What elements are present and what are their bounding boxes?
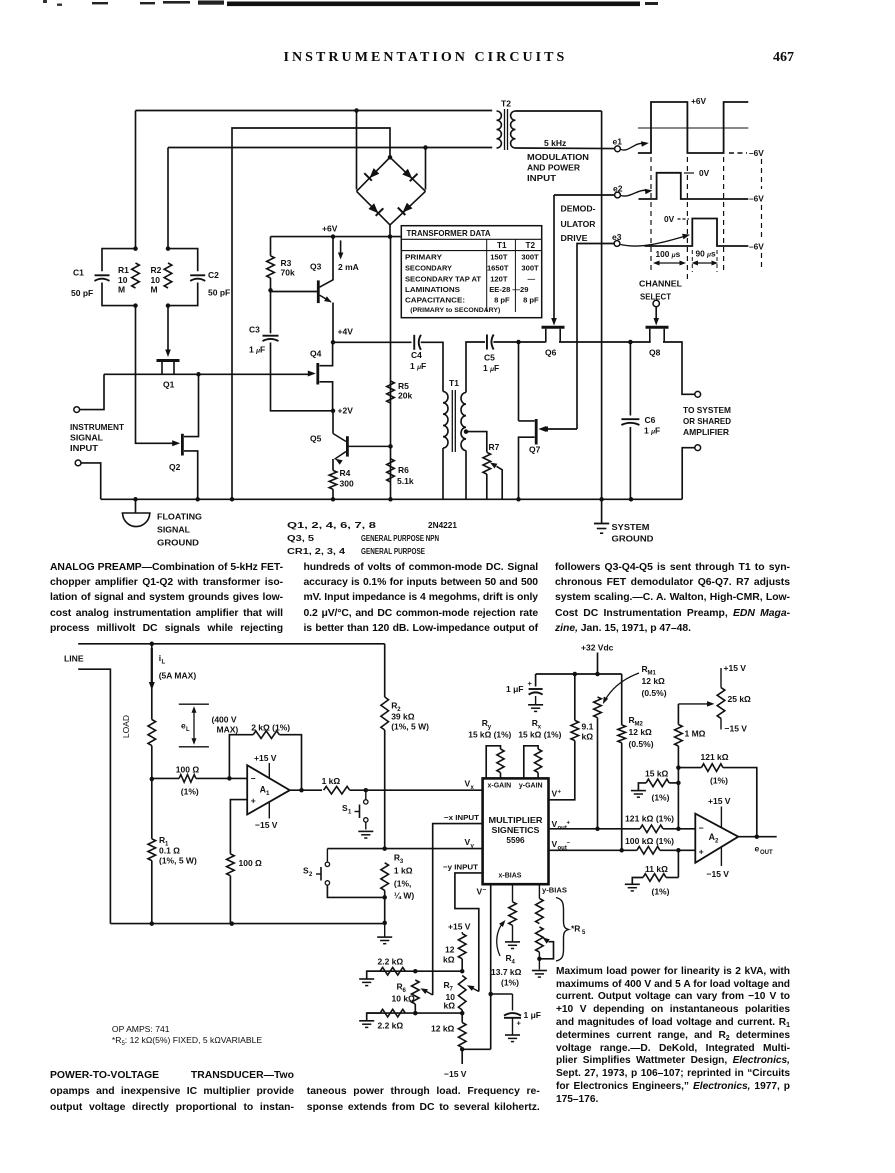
label transistor types [287,521,458,556]
svg-text:1 μF: 1 μF [483,363,499,373]
resistor R2 39k [381,644,429,849]
svg-text:(1%,: (1%, [394,879,411,889]
svg-text:CHANNEL: CHANNEL [639,279,682,289]
scan artifact top edge [43,0,658,6]
svg-text:−: − [699,823,704,833]
svg-text:(1%): (1%) [652,793,670,803]
svg-text:INSTRUMENT: INSTRUMENT [70,422,125,432]
svg-text:e2: e2 [613,184,623,194]
capacitor 1uF supply [506,674,543,711]
terminal e1 [615,146,621,152]
wire e2 feed [554,194,615,196]
svg-text:LINE: LINE [64,654,84,664]
svg-text:−15 V: −15 V [725,724,748,734]
svg-text:11 kΩ: 11 kΩ [645,864,668,874]
capacitor C4 [410,335,426,371]
resistor Rx 15k [518,718,561,778]
svg-text:y-BIAS: y-BIAS [542,886,567,895]
label Vx [465,779,475,792]
wire C5 to Q6 [493,341,545,343]
wire Q1 source-drain line [104,373,311,375]
node ground tap rail [382,921,387,926]
resistor R4 300 [329,459,354,499]
svg-text:+: + [528,679,533,688]
resistor 15k to ground [631,769,679,803]
resistor 9.1k [549,674,594,800]
svg-text:+15 V: +15 V [724,663,747,673]
node R6 bottom [413,1011,418,1016]
diode CR1 top-left [357,157,391,191]
svg-text:10: 10 [151,275,161,285]
terminal input 2 [75,460,101,499]
capacitor C1 [71,249,136,306]
svg-text:EE-28 —29: EE-28 —29 [489,285,528,294]
node Q5 base / R5-R6 [388,444,393,449]
wire primary bottom y=147.5 [168,147,492,149]
svg-text:+: + [251,796,256,806]
svg-text:SIGNAL: SIGNAL [70,433,103,443]
svg-text:R7: R7 [489,442,500,452]
svg-text:4: 4 [512,960,516,966]
svg-text:Q3, 5: Q3, 5 [287,534,315,543]
terminal e3 [614,241,620,247]
waveform e2 [639,168,765,204]
page number 467 [773,50,794,66]
svg-text:T1: T1 [449,378,459,388]
wire 2.2k lower row [367,1012,463,1014]
wire Q3 base [271,291,318,293]
diode CR3 bottom-left [357,191,391,225]
svg-text:MAX): MAX) [217,725,239,735]
svg-text:¼ W): ¼ W) [394,891,414,901]
svg-text:R5: R5 [398,381,409,391]
wire rail x=168 to R2 box [167,148,169,249]
svg-text:R6: R6 [398,465,409,475]
node R3 bottom [382,895,387,900]
wire minus node riser [677,768,679,829]
svg-text:e3: e3 [612,232,622,242]
op-amp A1 [247,753,290,830]
caption bottom column 3 [556,966,790,1107]
svg-text:R4: R4 [340,468,351,478]
node R1 top [133,246,138,251]
node 15k tap [676,781,681,786]
svg-text:13.7 kΩ: 13.7 kΩ [491,967,522,977]
arrow e1 to waveform [621,141,649,150]
svg-text:Q7: Q7 [529,445,541,455]
svg-text:−15 V: −15 V [444,1069,467,1079]
wire -x input [433,824,483,995]
note op amps [112,1024,262,1046]
caption top column 2 [304,560,539,636]
wire +32V entry [597,653,599,675]
svg-text:−y INPUT: −y INPUT [443,863,478,872]
svg-text:e1: e1 [613,137,623,147]
transistor Q8 [646,327,669,357]
svg-text:(5A MAX): (5A MAX) [159,671,197,681]
svg-text:(1%): (1%) [710,776,728,786]
svg-text:x-GAIN: x-GAIN [488,782,512,789]
node floating ground tap [133,497,138,502]
wire A1 output [290,789,322,791]
transistor Q2 [169,374,199,499]
svg-text:SECONDARY TAP AT: SECONDARY TAP AT [405,274,481,283]
potentiometer R7 [483,442,502,499]
svg-text:C5: C5 [484,353,495,363]
bus bottom rail [101,498,683,500]
ground system ground [594,499,654,543]
node Q2 source rail [195,497,200,502]
node +2V [331,409,336,414]
wire left rail x=135 [135,111,137,249]
svg-text:15 kΩ: 15 kΩ [645,769,669,779]
terminal channel select [653,300,659,306]
resistor 2.2k lower [359,1009,405,1030]
svg-text:−15 V: −15 V [707,869,730,879]
svg-text:5 kHz: 5 kHz [544,138,566,148]
waveform e1 [638,96,764,158]
svg-text:1 kΩ: 1 kΩ [322,776,341,786]
svg-text:+32 Vdc: +32 Vdc [581,643,614,653]
svg-text:Q1: Q1 [163,380,175,390]
svg-text:kΩ: kΩ [444,1001,456,1011]
svg-text:DEMOD-: DEMOD- [561,204,596,214]
svg-text:PRIMARY: PRIMARY [405,252,442,261]
svg-text:T2: T2 [526,241,536,250]
svg-text:+: + [567,821,571,827]
wire T1 secondary top to C5 [466,342,485,393]
svg-text:12 kΩ: 12 kΩ [642,676,666,686]
table transformer data [401,226,541,318]
svg-text:x-BIAS: x-BIAS [499,873,522,880]
label Vout+ [552,819,571,832]
svg-text:100 Ω: 100 Ω [176,765,200,775]
svg-text:kΩ: kΩ [443,955,455,965]
resistor 1M [675,725,706,768]
wire Vy [327,848,482,850]
svg-text:kΩ: kΩ [582,732,594,742]
node R7 top [460,969,465,974]
ground floating signal ground [122,499,203,547]
diode CR4 bottom-right [390,191,426,225]
terminal output top [695,391,701,397]
transistor Q5 [310,411,390,465]
label Vout- [552,839,571,852]
op-amp A2 [695,796,738,879]
resistor LOAD [121,644,156,779]
svg-text:GROUND: GROUND [157,538,199,548]
svg-text:50 pF: 50 pF [208,288,230,298]
svg-text:5.1k: 5.1k [397,476,414,486]
svg-text:2.2 kΩ: 2.2 kΩ [378,957,404,967]
svg-text:+15 V: +15 V [254,753,277,763]
svg-text:0V: 0V [699,168,710,178]
node A1 output [299,788,304,793]
node R1 bottom rail [150,921,155,926]
svg-text:FLOATING: FLOATING [157,512,202,522]
resistor R1 0.1ohm [148,779,197,924]
svg-text:20k: 20k [398,391,412,401]
svg-text:−: − [567,841,571,847]
svg-text:−x INPUT: −x INPUT [444,813,479,822]
node C6 bottom [629,497,634,502]
svg-text:Q4: Q4 [310,349,322,359]
svg-text:SIGNETICS: SIGNETICS [492,826,541,835]
svg-text:L: L [162,660,166,666]
node bridge bottom [388,234,393,239]
svg-text:3: 3 [400,859,404,865]
svg-text:Q1, 2, 4, 6, 7, 8: Q1, 2, 4, 6, 7, 8 [287,521,377,530]
node x232 rail bottom [230,497,235,502]
svg-text:300T: 300T [521,252,539,261]
wire Vout- line [549,849,637,851]
svg-text:1650T: 1650T [487,264,509,273]
ic multiplier 5596 [483,778,549,884]
svg-text:9.1: 9.1 [582,722,594,732]
svg-text:M: M [118,285,125,295]
svg-text:C4: C4 [411,350,422,360]
wire line lower lead [78,669,110,923]
svg-text:Q3: Q3 [310,262,322,272]
svg-text:TO SYSTEM: TO SYSTEM [683,406,731,415]
svg-text:INPUT: INPUT [70,443,99,453]
svg-text:0.1 Ω: 0.1 Ω [159,846,180,856]
node R1 top [150,777,155,782]
svg-text:121 kΩ: 121 kΩ [701,752,729,762]
ground main schematic2 [377,923,392,944]
svg-text:Q2: Q2 [169,462,181,472]
svg-text:OUT: OUT [760,850,773,856]
svg-text:12 kΩ: 12 kΩ [629,727,653,737]
resistor R2 10M [151,263,172,295]
wire C4 to T1 primary [421,342,443,391]
svg-text:10: 10 [118,275,128,285]
wire e3 feed [577,244,614,430]
label eout [755,844,774,857]
node T1 tap [464,429,469,434]
svg-text:1 μF: 1 μF [506,684,523,694]
svg-text:−15 V: −15 V [255,820,278,830]
wire bridge-top feed y=128 [232,128,390,499]
transistor Q4 [308,342,333,411]
label 2 mA arrow [338,240,359,272]
transformer T2 [497,99,516,151]
svg-text:(1%): (1%) [501,978,519,988]
svg-text:C6: C6 [645,415,656,425]
label to system or shared amplifier [683,406,731,437]
svg-text:(1%): (1%) [181,787,199,797]
svg-text:15 kΩ (1%): 15 kΩ (1%) [518,731,561,740]
svg-text:AND POWER: AND POWER [527,164,580,173]
resistor RM1 12k [594,664,667,829]
svg-text:+6V: +6V [322,224,338,234]
svg-text:R1: R1 [118,265,129,275]
arrow RM1 pointer [603,673,639,704]
svg-text:12 kΩ: 12 kΩ [431,1024,455,1034]
resistor 12k lower [431,1013,466,1064]
label demodulator drive [561,204,597,244]
svg-text:−: − [251,774,256,784]
wire bridge bottom to +6V rail [389,225,391,237]
diode CR2 top-right [390,157,426,191]
svg-text:12: 12 [445,945,455,955]
svg-text:MODULATION: MODULATION [527,153,589,162]
label 5 kHz modulation [527,138,589,183]
svg-text:1 μF: 1 μF [410,361,426,371]
wire +6V branch down x=390.5 [390,237,392,500]
svg-text:100 kΩ (1%): 100 kΩ (1%) [625,837,674,846]
svg-text:+2V: +2V [338,406,354,416]
svg-text:2: 2 [309,872,313,878]
wire 2.2k upper row [367,970,463,972]
svg-text:2 mA: 2 mA [338,262,359,272]
resistor R5 20k [387,381,413,403]
label instrument signal input [70,422,125,453]
node S1 tap [364,788,369,793]
svg-text:TRANSFORMER DATA: TRANSFORMER DATA [407,228,491,238]
svg-text:+: + [699,847,704,857]
capacitor 1uF output filter [491,994,541,1042]
wire Q7 gate [544,428,577,430]
node A2 output [755,834,760,839]
svg-text:1 μF: 1 μF [249,345,265,355]
svg-text:(1%, 5 W): (1%, 5 W) [391,722,429,732]
svg-text:5: 5 [582,930,586,936]
svg-text:(PRIMARY to SECONDARY): (PRIMARY to SECONDARY) [410,307,500,314]
svg-text:R3: R3 [281,258,292,268]
capacitor C6 [621,342,660,499]
svg-text:L: L [186,727,190,733]
node 100ohm bottom rail [230,921,235,926]
svg-text:(0.5%): (0.5%) [642,688,667,698]
wire T1 tap to R7 [466,432,487,453]
svg-text:—: — [528,274,536,283]
resistor 121k input [625,815,695,833]
svg-text:T2: T2 [501,99,511,109]
brace R5 [556,898,569,962]
svg-text:CAPACITANCE:: CAPACITANCE: [405,296,465,305]
svg-text:90 μs: 90 μs [696,249,716,259]
svg-text:out: out [558,846,567,852]
wire R2 to Q1 gate arrow [167,306,169,351]
bus schematic2 ground rail [110,923,384,925]
arrow -y to R7 wiper [467,985,479,991]
svg-text:+: + [517,1019,522,1028]
svg-text:+: + [558,790,562,796]
wire +4V to C4 [333,341,412,343]
node Q6-Q8 / C6 [628,340,633,345]
svg-text:M: M [151,285,158,295]
label V+ [552,789,562,799]
node R6 bottom [388,497,393,502]
svg-text:1 MΩ: 1 MΩ [685,729,706,739]
potentiometer R7 10k [444,976,467,1014]
label *R5 [571,924,586,937]
svg-text:−: − [483,887,487,894]
node A1 minus input [227,776,232,781]
capacitor C3 [249,290,333,411]
switch S1 [342,790,368,829]
caption bottom column 1 [50,1068,294,1115]
resistor 2.2k upper [359,957,405,986]
svg-text:10 kΩ: 10 kΩ [392,994,416,1004]
resistor R4 13.7k [491,884,522,987]
wire bridge left riser [356,111,358,190]
node bridge top [388,155,393,160]
svg-text:2N4221: 2N4221 [428,521,458,530]
header running title [284,50,568,66]
arrow -x to R6 wiper [421,988,433,995]
svg-text:70k: 70k [281,268,295,278]
svg-text:y-GAIN: y-GAIN [519,782,543,789]
node Q1 drain / Q2 drain [196,372,201,377]
svg-text:AMPLIFIER: AMPLIFIER [683,428,729,437]
label V- [477,887,487,897]
bus +6V rail [271,236,401,238]
node R3/C3/Q3 base [268,288,273,293]
resistor 100 ohm plus input [227,800,262,924]
wire line top rail [78,643,385,645]
svg-text:50 pF: 50 pF [71,288,93,298]
svg-text:121 kΩ (1%): 121 kΩ (1%) [625,815,674,824]
node bridge left [354,108,359,113]
capacitor C5 [483,335,499,374]
wire +32V distribution [536,673,622,675]
resistor R5 fixed [536,884,544,923]
node +32V [595,672,600,677]
node 9.1k top [573,672,578,677]
wire top rail to T2 primary top [136,110,493,112]
transformer T1 [443,378,466,499]
potentiometer R6 10k [392,980,420,1013]
svg-text:2 kΩ (1%): 2 kΩ (1%) [251,723,290,733]
wire V- line [490,884,492,1049]
svg-text:OR SHARED: OR SHARED [683,417,731,426]
waveform e3 [645,214,765,252]
svg-text:2.2 kΩ: 2.2 kΩ [378,1021,404,1031]
svg-text:GENERAL PURPOSE NPN: GENERAL PURPOSE NPN [361,534,439,543]
svg-text:Q8: Q8 [649,348,661,358]
arrow e3 to waveform [621,234,691,246]
wire bridge right riser [425,148,427,190]
transistor Q6 [542,327,565,357]
svg-text:C1: C1 [73,268,84,278]
svg-text:15 kΩ (1%): 15 kΩ (1%) [468,731,511,740]
node C5/Q7 junction [516,340,521,345]
svg-text:DRIVE: DRIVE [561,233,588,243]
label 100 us [653,249,686,266]
node bridge right [423,145,428,150]
svg-text:Q6: Q6 [545,348,557,358]
svg-text:1 μF: 1 μF [644,426,660,436]
svg-text:150T: 150T [490,252,508,261]
resistor 100 ohm input [152,765,247,797]
wire T2 ground line [601,111,603,499]
timing dashed guides [651,157,762,281]
wire Q7 drain riser [518,342,520,421]
resistor RM2 12k [618,674,654,850]
svg-text:GROUND: GROUND [612,534,654,544]
svg-text:+15 V: +15 V [708,796,731,806]
resistor 11k [625,850,679,896]
wire -y input [455,873,483,992]
arrow R4 pointer [497,920,506,956]
resistor R1 10M [118,263,139,295]
wire e2 line to Q6 gate [553,195,555,320]
caption bottom column 2 [307,1084,540,1115]
svg-text:SYSTEM: SYSTEM [612,522,650,532]
svg-text:SIGNAL: SIGNAL [157,525,190,535]
